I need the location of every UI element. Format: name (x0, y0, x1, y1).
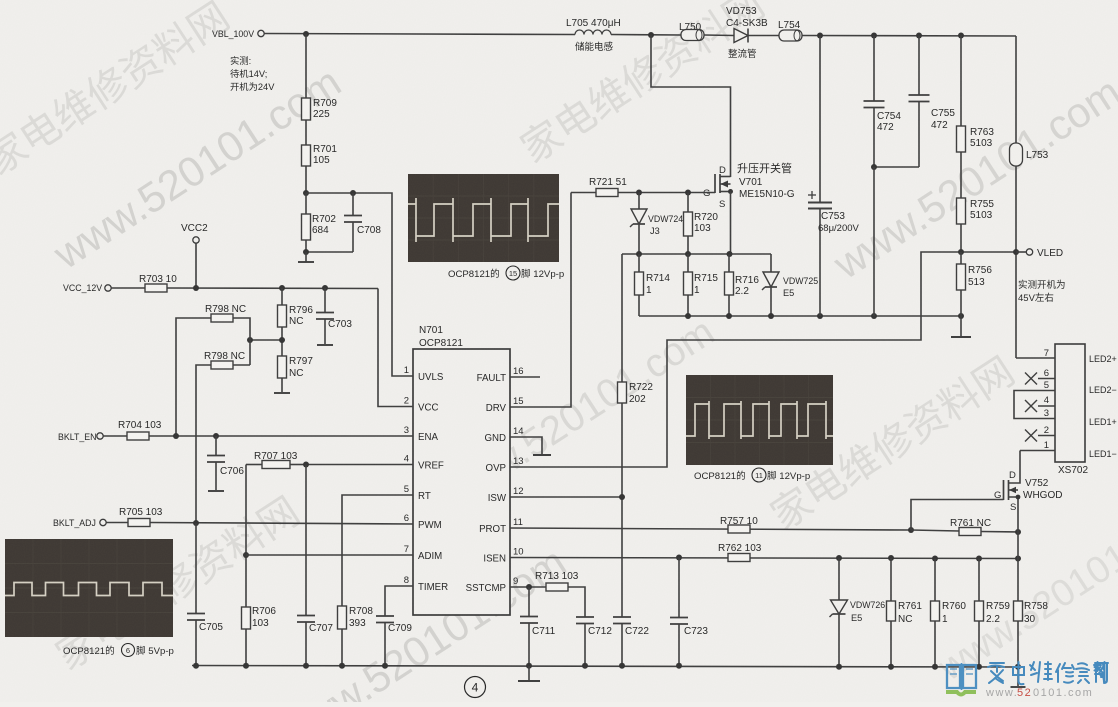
pin 8 TIMER (404, 575, 448, 593)
resistor R798 lower (196, 351, 250, 523)
junction srail-R716 (727, 251, 733, 257)
caption (63, 644, 174, 658)
wire R702 bottom (306, 240, 353, 252)
junction ISEN-C723 (676, 555, 682, 561)
wire source rail (622, 192, 771, 255)
junction ground rail (932, 664, 938, 670)
pin 4 nc (1025, 395, 1055, 412)
capacitor C755 (874, 36, 955, 168)
resistor R708 (338, 606, 374, 666)
resistor R704 (104, 420, 162, 440)
resistor R706 (242, 606, 277, 666)
junction C705-PWM (193, 520, 199, 526)
wire ground rail (192, 666, 1018, 668)
wire C754 down (873, 167, 875, 316)
pin 1 LED1- (1020, 440, 1117, 459)
diode VD753 C4-SK3B (726, 6, 768, 60)
pin 7 ADIM (404, 544, 443, 562)
junction ISEN-R758 (1015, 556, 1021, 562)
inductor L754 (778, 20, 802, 41)
resistor R797 (274, 356, 313, 393)
oscillogram PWM pin6 (5, 539, 173, 637)
resistor R714 (635, 254, 671, 316)
resistor R720 (684, 193, 719, 255)
junction R796 (279, 285, 285, 291)
capacitor C722 (613, 617, 649, 666)
zener VDW726 E5 (830, 558, 886, 666)
junction rail-C753 (817, 33, 823, 39)
junction R798-ENA (173, 433, 179, 439)
logo book icon (946, 663, 976, 695)
wire PROT net (510, 528, 911, 530)
junction ground rail (619, 663, 625, 669)
junction C754-C755 (871, 164, 877, 170)
pin 16 FAULT (477, 366, 524, 384)
junction ground rail (582, 663, 588, 669)
wire R707-ADIM riser (245, 465, 247, 608)
junction grail-R756 (958, 313, 964, 319)
pin 15 DRV (486, 396, 524, 414)
inductor L705 (566, 18, 621, 53)
junction VCC2 (193, 285, 199, 291)
resistor R709 (302, 34, 338, 120)
wire PWM net (150, 523, 413, 525)
junction srail-R714 (636, 251, 642, 257)
resistor R715 (684, 254, 719, 316)
pin 14 GND (484, 426, 523, 444)
connector XS702 (1055, 344, 1088, 476)
junction ground rail (193, 663, 199, 669)
caption (694, 468, 810, 482)
junction grail-C753 (817, 313, 823, 319)
junction gate-R720 (685, 190, 691, 196)
resistor R722 (618, 382, 654, 405)
resistor R716 (725, 254, 760, 316)
junction ground rail (1015, 664, 1021, 670)
junction grail-VDW725 (768, 313, 774, 319)
junction rail-R763 (958, 33, 964, 39)
terminal BKLT_ADJ (53, 518, 106, 528)
pin 11 PROT (479, 517, 523, 535)
capacitor C711 (520, 587, 556, 666)
inductor L753 (1010, 36, 1049, 358)
wire TIMER net (385, 586, 413, 616)
resistor R701 (302, 120, 338, 166)
resistor R759 (975, 559, 1011, 667)
pin 1 UVLS (404, 365, 444, 383)
ground right rail (951, 316, 971, 337)
wire VCC rail (167, 288, 413, 407)
capacitor C707 (297, 465, 333, 667)
junction ground rail (836, 664, 842, 670)
ground symbol center (518, 666, 540, 681)
resistor R703 (112, 274, 178, 292)
capacitor C709 (376, 616, 412, 666)
junction C711 (526, 584, 532, 590)
junction grail-R715 (685, 313, 691, 319)
pin 3 ENA (404, 425, 439, 443)
terminal VBL_100V (212, 29, 264, 39)
resistor R702 (302, 193, 337, 240)
resistor R758 (1014, 532, 1049, 666)
resistor R762 (718, 543, 762, 562)
junction PROT-gate (908, 527, 914, 533)
oscillogram PROT pin11 (686, 375, 833, 465)
wire ADIM net (246, 554, 413, 556)
resistor R796 (278, 288, 314, 340)
resistor R705 (107, 507, 163, 527)
resistor R721 (589, 177, 627, 197)
ground symbol right (1011, 667, 1026, 687)
wire OVP sense (510, 252, 1016, 467)
junction R702 top (303, 190, 309, 196)
wire R701-R702 (305, 166, 307, 193)
resistor R763 (957, 36, 995, 153)
page number 4 (465, 677, 486, 698)
pin 12 ISW (488, 486, 524, 504)
resistor R757 (720, 516, 758, 533)
junction gate-VDW724 (636, 190, 642, 196)
zener VDW725 E5 (762, 254, 818, 316)
junction ISW-R722 (619, 494, 625, 500)
junction divider mid (279, 337, 285, 343)
wire ISEN net (510, 558, 1018, 559)
junction ground rail (526, 663, 532, 669)
paper grain (0, 0, 1, 1)
pin 9 SSTCMP (466, 576, 519, 594)
capacitor C705 (187, 523, 223, 666)
junction VBL-R709 (303, 31, 309, 37)
terminal VLED (1016, 248, 1063, 259)
terminal BKLT_EN (58, 432, 103, 442)
ground below R702 (298, 252, 314, 262)
junction C707-VREF (303, 462, 309, 468)
pin 2 VCC (404, 396, 439, 414)
wire GND pin (510, 437, 551, 455)
pin 5 RT (404, 484, 431, 502)
resistor R755 (957, 152, 995, 252)
wire drain net (651, 35, 731, 177)
terminal VCC_12V (63, 283, 111, 293)
transistor V752 WHGOD (994, 451, 1062, 533)
capacitor C703 (316, 288, 352, 345)
resistor R798 upper (176, 304, 250, 436)
wire gate net (571, 192, 715, 194)
junction R798 right (247, 337, 253, 343)
junction C703 (322, 285, 328, 291)
wire ENA net (149, 435, 413, 437)
pin 13 OVP (486, 456, 524, 474)
wire R722 riser (621, 254, 623, 617)
junction rail-C754 (871, 33, 877, 39)
capacitor C712 (576, 617, 612, 666)
pin 4 VREF (404, 454, 444, 472)
wire RT net (342, 495, 413, 606)
junction ground rail (243, 663, 249, 669)
junction R761-source (1015, 529, 1021, 535)
inductor L750 (679, 22, 704, 41)
logo url (985, 687, 1093, 699)
resistor R761 gate (911, 518, 1018, 536)
junction VLED (1013, 249, 1019, 255)
wire SSTCMP net (510, 586, 546, 588)
capacitor C706 (207, 436, 244, 491)
junction R702 bottom (303, 249, 309, 255)
wire VREF net (306, 464, 413, 466)
pin 3 label (1044, 408, 1049, 419)
note text (230, 55, 275, 92)
wire ISW net (510, 496, 622, 498)
junction ground rail (382, 663, 388, 669)
pin 6 PWM (404, 513, 442, 531)
junction R755-R756 (958, 249, 964, 255)
wire R796-R797 (250, 340, 282, 356)
junction ISEN-R759 (976, 556, 982, 562)
oscillogram DRV pin15 (408, 174, 559, 262)
pin 6 nc (1025, 368, 1055, 385)
junction C708 top (350, 190, 356, 196)
junction grail-R716 (726, 313, 732, 319)
zener VDW724 J3 (630, 193, 683, 255)
junction ground rail (303, 663, 309, 669)
wire UVLS net (306, 193, 413, 376)
capacitor C754 (864, 36, 902, 168)
note VLED (1018, 279, 1066, 304)
junction VBL-drain (648, 32, 654, 38)
transistor V701 ME15N10-G (703, 161, 795, 210)
op-amp U1 N701 OCP8121 (413, 325, 510, 615)
wire switch ground rail (639, 315, 961, 317)
junction ISEN-R760 (932, 556, 938, 562)
wire DRV riser (510, 193, 571, 408)
logo text (988, 662, 1108, 684)
junction rail-C755 (916, 33, 922, 39)
junction ISEN-VDW726 (836, 555, 842, 561)
capacitor C753 68u/200V (808, 36, 860, 317)
junction ground rail (976, 664, 982, 670)
junction ground rail (339, 663, 345, 669)
junction ground rail (676, 663, 682, 669)
pin 7 LED2+ (1016, 348, 1117, 364)
resistor R756 (957, 252, 993, 316)
caption (448, 266, 564, 280)
pin 5 loop (1014, 380, 1117, 419)
junction C706-ENA (213, 433, 219, 439)
resistor R707 (246, 451, 306, 469)
resistor R760 (931, 559, 967, 667)
pin 10 ISEN (483, 547, 523, 565)
junction ADIM riser (243, 552, 249, 558)
junction srail-R715 (685, 251, 691, 257)
capacitor C708 (344, 193, 381, 252)
wire gate V752 (911, 500, 1004, 531)
capacitor C723 (670, 558, 708, 667)
junction ground rail (888, 664, 894, 670)
terminal VCC2 (181, 223, 208, 288)
wire FAULT stub (510, 376, 540, 378)
resistor R713 (535, 571, 585, 617)
resistor R761 bottom (887, 558, 923, 666)
wire VBL rail (265, 34, 1017, 37)
junction grail-C754 (871, 313, 877, 319)
pin 2 nc (1025, 417, 1117, 442)
junction ISEN-R761b (888, 555, 894, 561)
